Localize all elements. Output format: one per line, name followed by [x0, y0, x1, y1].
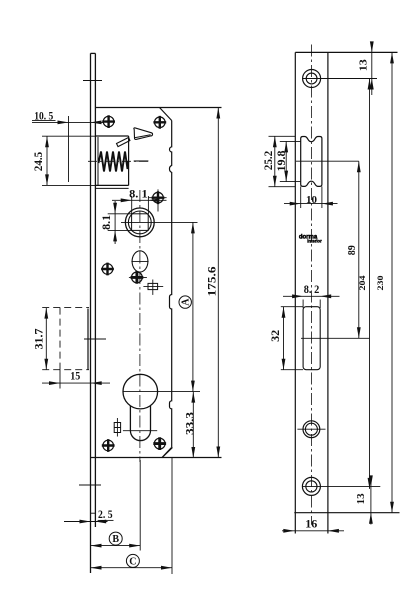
euro centerline horizontal: [123, 391, 200, 393]
faceplate front strip: [91, 53, 96, 573]
faceplate tick middle: [84, 338, 106, 340]
logo text: [299, 234, 322, 243]
svg-text:10: 10: [306, 194, 318, 206]
dim 8.1 vertical: [99, 201, 132, 244]
euro centerline extension down: [139, 460, 141, 551]
latch guide line: [134, 160, 149, 162]
svg-text:175.6: 175.6: [204, 267, 218, 297]
svg-text:15: 15: [70, 368, 80, 382]
latch bolt wedge: [134, 128, 153, 140]
svg-text:13: 13: [357, 59, 369, 72]
svg-text:C: C: [129, 557, 136, 568]
screw slot: [301, 300, 370, 370]
svg-text:B: B: [112, 534, 119, 545]
svg-text:19.8: 19.8: [274, 151, 288, 172]
faceplate tick bottom: [79, 484, 101, 486]
dim 33.3: [183, 392, 197, 458]
spring centerline: [88, 160, 150, 162]
dim C case depth: [91, 554, 173, 569]
follower square hole: [132, 214, 149, 231]
fuse symbol F1: [143, 280, 163, 295]
dim 15: [42, 368, 110, 385]
dim A (center distance): [179, 222, 195, 391]
fuse symbol F2: [114, 418, 120, 437]
follower hole outer circle: [125, 208, 154, 237]
svg-text:13: 13: [355, 493, 367, 505]
dim 13 bottom: [355, 475, 373, 524]
dashed boss rectangle: [42, 308, 89, 389]
latch cutout: [296, 137, 359, 187]
strike plate outline: [294, 52, 399, 533]
screw S3 follower: [149, 189, 167, 211]
top hole: [303, 70, 377, 88]
coil spring: [99, 152, 129, 172]
dim 24.5: [31, 136, 95, 185]
dim 8.1 horizontal: [112, 187, 167, 214]
svg-text:33.3: 33.3: [183, 412, 197, 435]
screw S7 bottom-right dark: [153, 437, 172, 458]
plate centerline: [311, 45, 313, 525]
dim 10: [284, 187, 338, 209]
latch tail strip: [117, 137, 130, 146]
svg-text:8.1: 8.1: [99, 215, 113, 230]
dim 31.7: [31, 308, 48, 370]
vertical centerline (lock): [139, 190, 141, 462]
lock case outline: [90, 108, 222, 458]
svg-text:24.5: 24.5: [31, 152, 45, 172]
svg-text:31.7: 31.7: [31, 329, 45, 350]
euro cylinder hole: [123, 374, 158, 440]
spring housing box: [95, 136, 129, 188]
dim B backset: [91, 532, 141, 547]
dim 175.6: [204, 108, 220, 458]
dim 8.2: [283, 282, 340, 298]
dim 13 top: [357, 41, 373, 95]
screw S5 dark: [129, 271, 147, 284]
dim 19.8: [274, 141, 301, 181]
dim 25.2: [261, 136, 295, 186]
follower hole inner circle: [128, 211, 151, 234]
screw S1 top-left: [103, 116, 114, 127]
bottom hole: [302, 477, 380, 495]
dim 230: [375, 52, 394, 512]
screw S2 top-right: [155, 117, 166, 128]
dim 2.5: [64, 507, 114, 523]
case right extension down: [171, 458, 173, 574]
screw S6 bottom-left: [103, 440, 114, 451]
dim 204: [357, 79, 371, 489]
svg-text:2. 5: 2. 5: [98, 507, 113, 521]
dim 10.5: [32, 108, 103, 182]
svg-text:32: 32: [268, 330, 282, 342]
svg-text:A: A: [181, 298, 192, 306]
oval hole: [131, 251, 148, 272]
dim 89: [347, 161, 360, 338]
svg-text:8. 2: 8. 2: [304, 282, 320, 296]
svg-text:230: 230: [375, 276, 385, 291]
mid hole: [297, 421, 325, 438]
svg-text:16: 16: [305, 517, 317, 531]
follower crosshair: [121, 221, 198, 223]
screw S4 mid-left: [102, 264, 113, 275]
svg-text:interior: interior: [307, 239, 322, 244]
dim 32: [268, 307, 303, 370]
svg-text:204: 204: [357, 275, 367, 291]
svg-text:89: 89: [347, 245, 358, 255]
faceplate tick top: [83, 80, 102, 82]
dim 16: [282, 517, 344, 533]
